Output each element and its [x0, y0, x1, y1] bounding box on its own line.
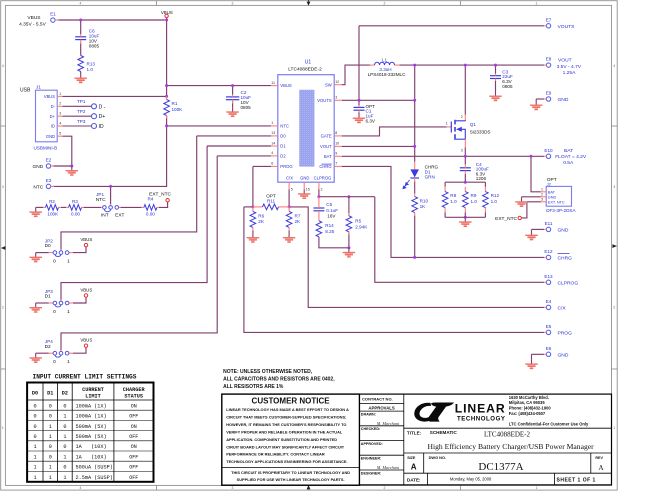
terminal E6: [544, 346, 569, 358]
svg-text:1A (10X): 1A (10X): [76, 444, 107, 450]
svg-text:JP1: JP1: [96, 192, 104, 197]
wire VOUTS to C1: [358, 100, 360, 105]
title block title fields: [407, 430, 604, 483]
svg-text:GND: GND: [558, 352, 569, 358]
transistor Q1 Si2333DS: [446, 115, 491, 152]
wire D0 staircase to JP2: [61, 136, 197, 250]
svg-text:2: 2: [2, 306, 4, 310]
svg-text:3: 3: [2, 185, 4, 189]
svg-text:D2: D2: [280, 154, 286, 159]
svg-text:LINEAR TECHNOLOGY HAS MADE A B: LINEAR TECHNOLOGY HAS MADE A BEST EFFORT…: [226, 407, 349, 412]
svg-text:DC1377A: DC1377A: [478, 461, 523, 473]
svg-text:1: 1: [613, 426, 615, 430]
ground at E11: [525, 231, 538, 240]
U1 pin 15 GND: [300, 176, 310, 192]
svg-text:1.0: 1.0: [471, 199, 478, 204]
wire J2 gnd stem: [521, 196, 523, 198]
svg-text:1.0: 1.0: [450, 199, 457, 204]
svg-text:M. Marchant: M. Marchant: [376, 465, 400, 470]
svg-text:GND: GND: [558, 97, 569, 103]
svg-text:FLOAT = 4.2V: FLOAT = 4.2V: [555, 154, 587, 160]
ground below C3: [489, 92, 502, 101]
svg-text:3: 3: [335, 96, 337, 100]
svg-text:D1: D1: [47, 391, 53, 397]
junction: [347, 246, 350, 249]
junction: [251, 205, 254, 208]
svg-text:Si2333DS: Si2333DS: [470, 130, 491, 135]
node VBUS flag at trunk: [161, 10, 173, 18]
svg-text:100mA (1X): 100mA (1X): [76, 403, 107, 409]
note text block: [223, 369, 335, 390]
svg-text:USB: USB: [20, 87, 31, 93]
svg-text:3: 3: [461, 148, 463, 152]
node VBUS input label: [19, 15, 46, 28]
wire C/X net to E4: [289, 207, 544, 308]
wire PROG row from U1 pin 6: [253, 165, 271, 167]
ground below C1: [353, 114, 366, 123]
svg-text:D1: D1: [280, 144, 286, 149]
wire R4 to EXT_NTC flag: [159, 202, 168, 208]
terminal E12 CHRG: [544, 249, 572, 261]
wire NTC net: R1 bottom down then left to E3: [53, 116, 167, 187]
junction: [494, 64, 497, 67]
svg-text:E1: E1: [50, 12, 56, 17]
terminal E1: [50, 12, 59, 23]
jumper JP2 D0: [45, 238, 73, 264]
svg-text:1: 1: [33, 465, 36, 471]
wire NTC row to U1 pin 1: [167, 125, 271, 127]
U1 pin 5 C/X: [286, 176, 293, 192]
svg-text:0: 0: [63, 424, 66, 430]
svg-text:DESIGNER:: DESIGNER:: [361, 471, 382, 475]
wire VBUS top rail from E1: [57, 19, 165, 21]
svg-text:6: 6: [271, 162, 273, 166]
table INPUT CURRENT LIMIT SETTINGS: [27, 374, 153, 482]
junction: [413, 64, 416, 67]
jumper JP3 D1: [45, 289, 73, 315]
stub R12 top: [484, 187, 486, 192]
capacitor C3: [490, 69, 513, 89]
svg-text:GND: GND: [300, 176, 309, 181]
svg-text:1: 1: [446, 121, 448, 125]
svg-text:ALL RESISOTRS ARE 1%: ALL RESISOTRS ARE 1%: [223, 384, 284, 390]
svg-text:E4: E4: [546, 299, 552, 304]
jumper JP4 D2: [45, 339, 73, 365]
wire C2 to ground: [232, 101, 234, 107]
ground at U1 GND pin 15: [298, 189, 311, 198]
svg-text:E11: E11: [545, 221, 553, 226]
wire VOUT rail down to Q1: [464, 65, 466, 114]
svg-text:7: 7: [335, 162, 337, 166]
terminal E3: [33, 178, 54, 190]
wire VBUS to C6: [80, 20, 82, 34]
U1 pin 12 SW: [325, 80, 342, 87]
wire CLPROG node east: [319, 196, 375, 198]
svg-text:R12: R12: [491, 193, 500, 198]
svg-text:TP1: TP1: [77, 99, 86, 104]
svg-text:ON: ON: [131, 424, 137, 430]
svg-text:0: 0: [49, 403, 52, 409]
junction: [165, 84, 168, 87]
svg-text:CIRUIT BOARD LAYOUT MAY SIGNIF: CIRUIT BOARD LAYOUT MAY SIGNIFICANTLY AF…: [226, 444, 345, 449]
wire C6 to R13: [80, 43, 82, 56]
wire D1 row from U1 pin 14: [207, 145, 271, 147]
svg-text:2: 2: [321, 188, 323, 192]
svg-text:Milpitas, CA 95035: Milpitas, CA 95035: [509, 400, 546, 405]
svg-text:0805: 0805: [89, 44, 100, 49]
wire SW pin to L1: [342, 65, 370, 85]
svg-text:PROG: PROG: [280, 164, 292, 169]
svg-text:1A (10X): 1A (10X): [76, 454, 107, 460]
stub R8 bottom: [444, 207, 446, 212]
svg-text:TITLE:: TITLE:: [407, 431, 422, 436]
svg-text:EXT_NTC: EXT_NTC: [149, 191, 171, 197]
junction: [464, 216, 467, 219]
svg-text:R13: R13: [87, 62, 96, 67]
terminal E9: [544, 91, 569, 103]
wire BAT rail U1 pin 9 to E10: [342, 155, 544, 157]
svg-text:PROG: PROG: [558, 330, 573, 336]
title block: [360, 394, 612, 485]
svg-text:4: 4: [271, 151, 273, 155]
svg-text:1: 1: [49, 465, 52, 471]
svg-text:E6: E6: [546, 346, 552, 351]
wire R5 bottom to ground node: [348, 232, 350, 248]
svg-text:0: 0: [33, 403, 36, 409]
ground at R2: [29, 207, 42, 216]
svg-text:VBUS: VBUS: [80, 237, 92, 242]
test point TP3: [63, 119, 104, 130]
terminal E11: [544, 221, 569, 233]
junction: [109, 185, 112, 188]
svg-text:EXT: EXT: [115, 212, 124, 218]
svg-text:3: 3: [232, 486, 234, 490]
junction: [70, 165, 73, 168]
resistor R5: [346, 197, 368, 235]
junction: [413, 145, 416, 148]
svg-text:D-: D-: [51, 104, 56, 109]
node EXT_NTC flag (right): [495, 216, 521, 222]
wire VOUTS row U1 pin 3: [342, 99, 415, 101]
ground at JP2: [29, 253, 42, 262]
svg-text:CONTRACT NO.: CONTRACT NO.: [362, 396, 393, 401]
ground below R7: [283, 233, 296, 242]
svg-text:0: 0: [53, 359, 56, 365]
junction: [165, 95, 168, 98]
svg-text:D0: D0: [280, 134, 286, 139]
svg-text:1: 1: [2, 426, 4, 430]
svg-text:12: 12: [335, 80, 339, 84]
svg-text:NTC: NTC: [280, 124, 289, 129]
svg-text:14: 14: [271, 141, 275, 145]
capacitor C1 (OPT): [354, 104, 376, 124]
svg-text:VERIFY PROPER AND RELIABLE OPE: VERIFY PROPER AND RELIABLE OPERATION IN …: [226, 429, 343, 434]
wire R8 bottom: [444, 212, 446, 217]
svg-text:500mA (5X): 500mA (5X): [76, 434, 107, 440]
svg-text:TECHNOLOGY APPLICATIONS ENGINE: TECHNOLOGY APPLICATIONS ENGINEERING FOR …: [226, 459, 347, 464]
svg-text:0: 0: [49, 414, 52, 420]
junction: [358, 99, 361, 102]
svg-text:1: 1: [271, 121, 273, 125]
junction: [413, 99, 416, 102]
svg-text:U1: U1: [305, 60, 312, 66]
svg-text:R2: R2: [49, 199, 55, 204]
wire JP2 pin3 to VBUS flag: [73, 247, 86, 253]
svg-text:1.0: 1.0: [87, 67, 94, 72]
svg-text:0: 0: [33, 424, 36, 430]
svg-text:L1: L1: [382, 57, 388, 62]
svg-text:INT: INT: [101, 212, 109, 218]
title block address text: [509, 395, 589, 427]
wire VBUS vertical trunk x=166.6: [166, 18, 168, 98]
svg-text:2: 2: [384, 1, 386, 5]
svg-text:3: 3: [59, 112, 61, 116]
customer notice box: [222, 394, 360, 485]
svg-text:REV: REV: [595, 456, 603, 460]
svg-text:HOWEVER, IT REMAINS THE CUSTOM: HOWEVER, IT REMAINS THE CUSTOMER'S RESPO…: [226, 422, 346, 427]
wire CLPROG pin down: [318, 189, 320, 197]
wire C3 to ground: [495, 81, 497, 92]
wire VBUS row to C2: [232, 86, 234, 95]
svg-text:1: 1: [63, 414, 66, 420]
U1 pin 6 PROG: [271, 162, 293, 169]
svg-text:11: 11: [271, 81, 275, 85]
wire Q1 to BAT rail: [464, 148, 466, 157]
svg-text:JP4: JP4: [45, 339, 53, 344]
svg-text:LIMIT: LIMIT: [85, 393, 101, 399]
resistor R6: [250, 207, 265, 233]
svg-text:1: 1: [536, 1, 538, 5]
svg-text:BAT: BAT: [324, 154, 332, 159]
node VBUS flag at JP2: [80, 237, 92, 247]
svg-text:EXT_NTC: EXT_NTC: [495, 216, 517, 222]
junction: [288, 205, 291, 208]
svg-text:GND: GND: [33, 164, 44, 170]
svg-text:C/X: C/X: [286, 176, 293, 181]
svg-text:E5: E5: [546, 324, 552, 329]
resistor R13: [78, 56, 95, 73]
ground at E6: [525, 359, 538, 368]
svg-text:CUSTOMER NOTICE: CUSTOMER NOTICE: [252, 396, 331, 405]
svg-text:100K: 100K: [172, 107, 184, 112]
wire BAT to J2 pin 1: [531, 156, 541, 192]
svg-text:R6: R6: [258, 213, 264, 218]
junction: [347, 195, 350, 198]
svg-text:4: 4: [613, 64, 615, 68]
svg-text:BAT: BAT: [564, 148, 573, 154]
capacitor C4: [460, 162, 489, 181]
stub R8 top: [444, 187, 446, 192]
junction: [231, 84, 234, 87]
ground at E2 / J1 shield node: [66, 166, 79, 175]
svg-text:3: 3: [541, 197, 543, 201]
wire BAT rail to C4: [464, 156, 466, 164]
U1 pin 2 CLPROG: [314, 176, 332, 192]
ground below R8/R9/R12 bank: [459, 217, 472, 226]
svg-text:APPROVED:: APPROVED:: [361, 442, 383, 446]
stub R12 bottom: [484, 207, 486, 212]
svg-text:2: 2: [59, 102, 61, 106]
svg-text:R11: R11: [267, 198, 276, 203]
svg-text:DF3-3P-2DSA: DF3-3P-2DSA: [546, 208, 576, 213]
svg-text:E12: E12: [544, 249, 553, 254]
svg-text:OFF: OFF: [129, 414, 138, 420]
svg-text:A: A: [598, 464, 603, 472]
svg-text:SIZE: SIZE: [407, 456, 416, 460]
ground at R5/R14 node: [343, 248, 356, 257]
svg-text:4: 4: [80, 486, 82, 490]
test point TP2: [63, 109, 106, 120]
U1 pin 13 D0: [271, 131, 286, 138]
wire VBUS row to U1 pin 11: [167, 85, 271, 87]
junction: [464, 155, 467, 158]
svg-text:R7: R7: [295, 213, 301, 218]
wire L1 to VOUT rail E8: [399, 64, 544, 66]
wire D2 staircase to JP4: [61, 156, 217, 350]
resistor R7: [286, 207, 301, 233]
svg-text:D1: D1: [45, 294, 51, 300]
svg-text:2: 2: [384, 486, 386, 490]
wire EXT_NTC to flag: [521, 202, 527, 218]
wire resistor bank bottom rail: [445, 216, 485, 218]
svg-text:VBUS: VBUS: [80, 287, 92, 292]
svg-text:Phone: (408)432-1900: Phone: (408)432-1900: [509, 406, 552, 411]
svg-text:13: 13: [271, 131, 275, 135]
svg-text:1: 1: [49, 475, 52, 481]
svg-text:D -: D -: [99, 104, 106, 110]
svg-text:BAT: BAT: [548, 190, 556, 194]
ground below R13: [74, 74, 87, 83]
junction: [165, 19, 168, 22]
U1 pin 8 GATE: [321, 131, 342, 138]
svg-text:E3: E3: [46, 178, 52, 183]
wire E2 GND row: [53, 165, 72, 167]
svg-text:4: 4: [2, 64, 4, 68]
terminal E2: [33, 158, 54, 170]
svg-text:SUPPLIED FOR USE WITH LINEAR T: SUPPLIED FOR USE WITH LINEAR TECHNOLOGY …: [237, 477, 345, 482]
wire CHRG net U1 pin 7 to E12: [342, 166, 544, 257]
terminal E10 BAT: [544, 148, 587, 166]
terminal E5: [544, 324, 572, 336]
wire E9 ground stem: [535, 99, 537, 101]
svg-text:3.5V - 4.7V: 3.5V - 4.7V: [557, 64, 582, 70]
wire J1 pin5 to ground node: [63, 136, 72, 166]
wire C1 to ground: [358, 112, 360, 114]
stub R9 top: [464, 187, 466, 192]
ground at E9: [530, 101, 543, 110]
wire R14 bottom to ground node: [319, 237, 349, 248]
svg-text:D+: D+: [50, 114, 56, 119]
svg-text:CHRG: CHRG: [319, 164, 331, 169]
jumper JP1 NTC select: [96, 192, 125, 218]
svg-text:CURRENT: CURRENT: [82, 387, 104, 393]
svg-text:GND: GND: [548, 195, 557, 199]
svg-text:STATUS: STATUS: [124, 393, 143, 399]
svg-text:ON: ON: [131, 444, 137, 450]
U1 pin 7 CHRG: [319, 162, 341, 169]
svg-text:R4: R4: [147, 197, 153, 202]
svg-text:1: 1: [63, 434, 66, 440]
svg-text:100mA (1X): 100mA (1X): [76, 414, 107, 420]
resistor R8: [442, 192, 457, 208]
svg-text:CIRCUIT THAT MEETS CUSTOMER-SU: CIRCUIT THAT MEETS CUSTOMER-SUPPLIED SPE…: [226, 414, 346, 419]
ground below R6: [247, 233, 260, 242]
svg-text:TP3: TP3: [77, 119, 86, 124]
wire E7 VOUTS top rail: [359, 25, 544, 27]
svg-text:TECHNOLOGY: TECHNOLOGY: [457, 415, 506, 422]
svg-text:ALL CAPACITORS AND RESISTORS A: ALL CAPACITORS AND RESISTORS ARE 0402,: [223, 377, 335, 383]
svg-text:8: 8: [335, 131, 337, 135]
svg-text:DRAWN:: DRAWN:: [361, 413, 376, 417]
svg-text:APPROVALS: APPROVALS: [368, 406, 395, 411]
svg-text:R5: R5: [355, 218, 361, 223]
capacitor C2: [226, 90, 251, 110]
wire JP4 pin1 to ground: [36, 352, 49, 354]
wire PROG net down and right to E5: [244, 207, 544, 333]
svg-text:E10: E10: [544, 148, 553, 153]
svg-text:CHRG: CHRG: [558, 255, 573, 261]
svg-text:10: 10: [335, 142, 339, 146]
U1 pin 11 VBUS: [271, 81, 292, 88]
svg-text:SCHEMATIC: SCHEMATIC: [430, 430, 458, 435]
resistor R1: [164, 96, 183, 118]
svg-text:4: 4: [80, 1, 82, 5]
test point TP1: [63, 99, 106, 110]
svg-text:R10: R10: [420, 198, 429, 203]
svg-text:0: 0: [33, 434, 36, 440]
connector J1 USBMINI-B: [20, 85, 63, 151]
junction: [464, 181, 467, 184]
wire VOUTS vertical to E7 rail: [358, 26, 360, 101]
svg-text:3: 3: [613, 185, 615, 189]
wire R12 bottom: [484, 212, 486, 217]
svg-text:Monday, May 05, 2008: Monday, May 05, 2008: [450, 476, 492, 481]
svg-text:APPLICATION. COMPONENT SUBSTI: APPLICATION. COMPONENT SUBSTITUTION AND …: [226, 437, 337, 442]
wire to R8 top: [444, 182, 446, 187]
svg-text:0805: 0805: [502, 84, 513, 89]
svg-text:Fax: (408)434-0507: Fax: (408)434-0507: [509, 411, 546, 416]
svg-text:CLPROG: CLPROG: [558, 280, 579, 286]
resistor R12: [483, 192, 500, 208]
svg-text:R1: R1: [172, 101, 178, 106]
wire JP3 pin1 to ground: [36, 302, 49, 304]
svg-text:E2: E2: [46, 158, 52, 163]
svg-text:M. Marchant: M. Marchant: [376, 421, 400, 426]
wire R13 to ground: [80, 72, 82, 74]
svg-text:0: 0: [53, 309, 56, 315]
svg-text:1630 McCarthy Blvd.: 1630 McCarthy Blvd.: [509, 395, 549, 400]
svg-text:0: 0: [63, 465, 66, 471]
svg-text:3.3uH: 3.3uH: [379, 67, 391, 72]
svg-text:SHEET 1 OF 1: SHEET 1 OF 1: [557, 477, 596, 483]
svg-text:2K: 2K: [295, 219, 302, 224]
svg-text:D0: D0: [32, 391, 38, 397]
svg-text:NTC: NTC: [33, 184, 43, 190]
svg-text:1: 1: [541, 187, 543, 191]
svg-text:1: 1: [63, 454, 66, 460]
svg-text:500mA (5X): 500mA (5X): [76, 424, 107, 430]
wire GATE net U1 pin 8 to Q1 gate: [342, 127, 447, 136]
svg-text:OFF: OFF: [129, 475, 138, 481]
svg-text:VBUS: VBUS: [280, 83, 292, 88]
svg-text:CHARGER: CHARGER: [123, 387, 146, 393]
wire PROG down to R11 left node: [252, 166, 254, 207]
wire C4 to resistor bank: [464, 174, 466, 182]
svg-text:VOUT: VOUT: [320, 144, 332, 149]
svg-text:R9: R9: [471, 193, 477, 198]
junction: [530, 155, 533, 158]
svg-text:R3: R3: [72, 199, 78, 204]
